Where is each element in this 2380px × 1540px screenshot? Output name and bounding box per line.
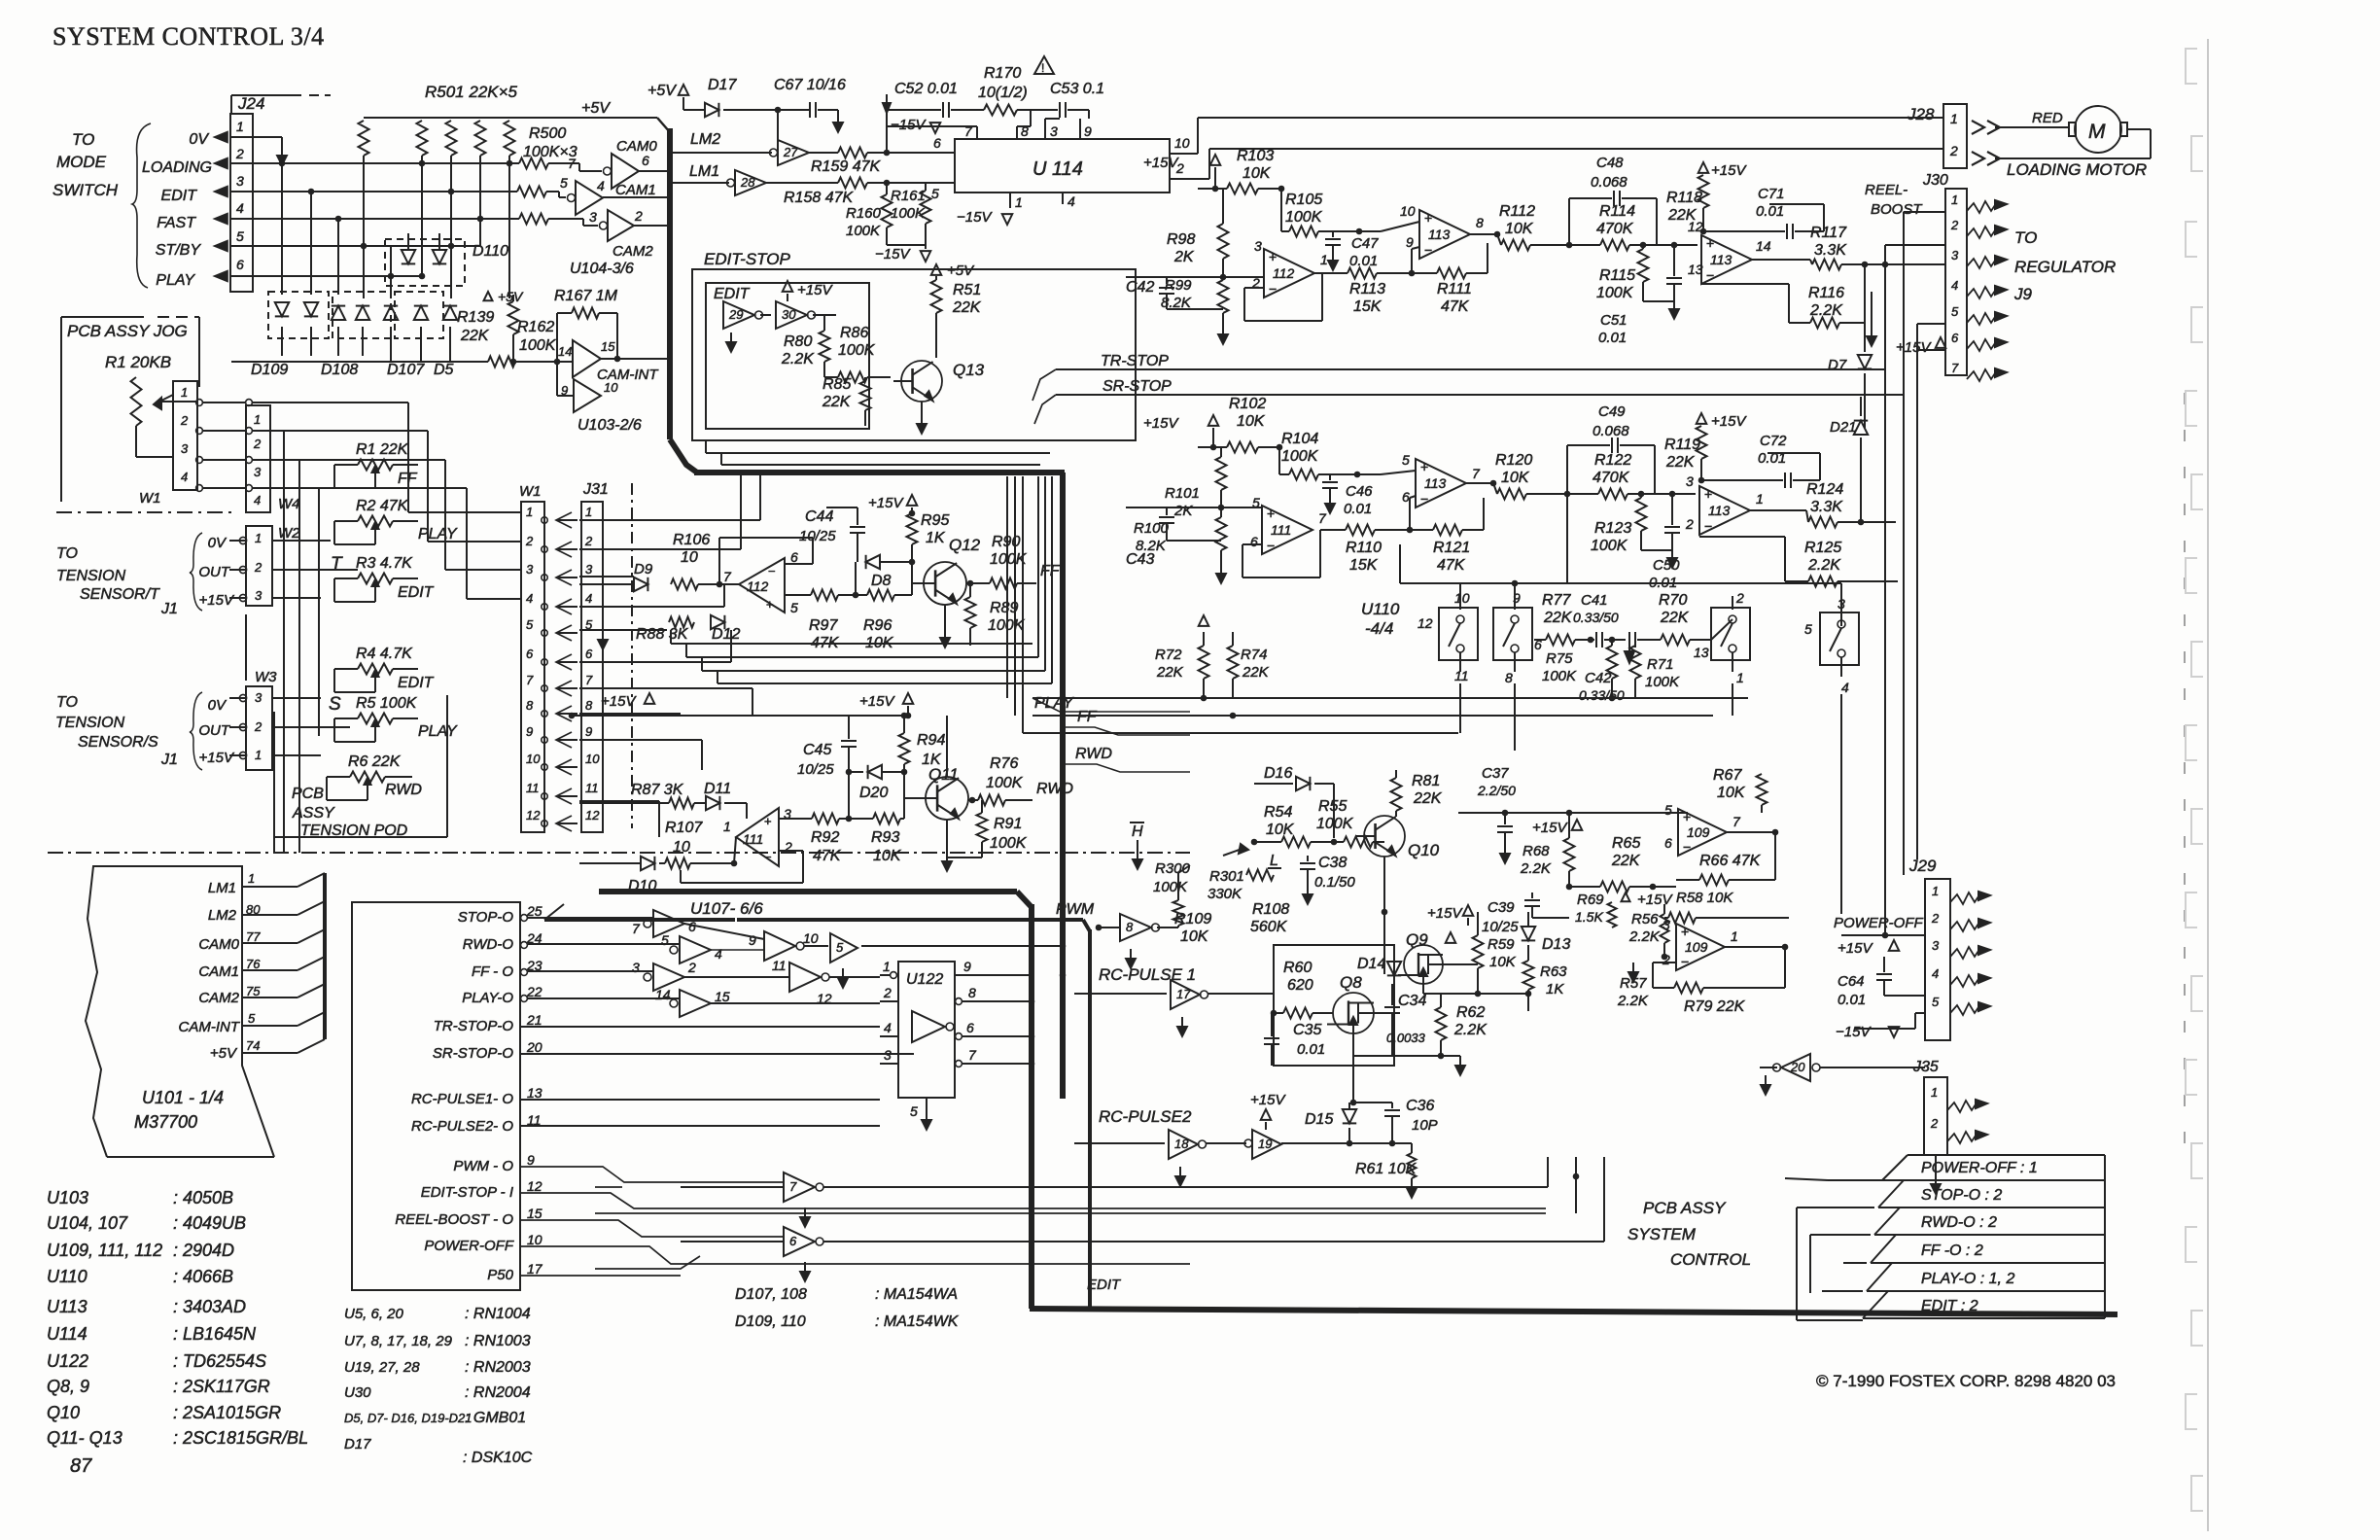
feedback R106 wire	[718, 538, 720, 584]
svg-text:D110: D110	[472, 243, 508, 260]
svg-text:1: 1	[1731, 928, 1738, 944]
resistor R103	[1215, 188, 1227, 190]
bus thick horizontal H3	[737, 918, 1083, 922]
op-amp U109 a	[1678, 809, 1727, 856]
svg-text:STOP-O : 2: STOP-O : 2	[1921, 1187, 2002, 1204]
svg-text:U110: U110	[1361, 600, 1400, 618]
svg-text:10/25: 10/25	[799, 528, 836, 544]
wire ST/BY row	[230, 245, 480, 247]
svg-text:FF - O: FF - O	[472, 963, 513, 980]
transistor Q8 fet	[1333, 993, 1374, 1033]
svg-text:10/25: 10/25	[1482, 919, 1519, 935]
svg-text:POWER-OFF: POWER-OFF	[424, 1238, 513, 1254]
svg-text:0.068: 0.068	[1592, 423, 1629, 439]
svg-text:10: 10	[673, 839, 690, 856]
resistor R167	[572, 308, 599, 319]
svg-text:P50: P50	[487, 1267, 513, 1283]
svg-text:OUT: OUT	[198, 722, 231, 739]
resistor R106	[671, 579, 698, 590]
inverter 19	[1206, 1142, 1246, 1144]
svg-text:112: 112	[747, 578, 769, 594]
diode D13	[1527, 912, 1529, 926]
resistor R80	[820, 331, 830, 362]
svg-text:+15V: +15V	[199, 750, 235, 766]
svg-text:3: 3	[1254, 238, 1262, 254]
svg-text:R121: R121	[1433, 540, 1470, 556]
svg-text:1: 1	[1931, 1085, 1938, 1100]
svg-text:R98: R98	[1167, 231, 1195, 248]
svg-text:U104-3/6: U104-3/6	[570, 261, 634, 277]
svg-text:75: 75	[246, 984, 261, 998]
svg-text:1: 1	[255, 531, 262, 545]
U114 pin 5	[926, 182, 955, 184]
J24 pin 2 arrow	[215, 158, 227, 168]
svg-text:M: M	[2088, 121, 2106, 143]
svg-text:12: 12	[527, 1178, 542, 1194]
svg-text:C53 0.1: C53 0.1	[1050, 81, 1104, 97]
svg-text:U107- 6/6: U107- 6/6	[690, 899, 763, 918]
svg-text:C48: C48	[1596, 155, 1624, 171]
svg-text:19: 19	[1258, 1137, 1272, 1151]
svg-text:77: 77	[246, 929, 261, 944]
svg-text:1K: 1K	[1546, 981, 1564, 997]
svg-text:LM2: LM2	[208, 907, 237, 924]
resistor R500c	[519, 214, 548, 225]
sensor T brace	[190, 533, 202, 611]
resistor R111	[1412, 272, 1437, 274]
box tension pod	[274, 836, 447, 838]
svg-text:2: 2	[883, 985, 892, 1000]
diode D107b	[414, 306, 428, 320]
wire +15 Q9	[1467, 918, 1469, 926]
pot R1 jog	[131, 377, 142, 426]
J24 pin 4 arrow	[215, 214, 227, 224]
svg-text:0.01: 0.01	[1756, 203, 1784, 220]
svg-text:C42: C42	[1126, 279, 1154, 296]
svg-text:100K: 100K	[1285, 209, 1323, 226]
svg-text:2: 2	[1949, 143, 1958, 158]
svg-text:74: 74	[246, 1038, 260, 1053]
box edit-stop inner	[706, 283, 869, 429]
svg-text:: 4049UB: : 4049UB	[173, 1213, 246, 1233]
svg-text:TR-STOP: TR-STOP	[1101, 353, 1169, 369]
wire 111b out	[734, 837, 736, 863]
svg-text:8: 8	[1505, 670, 1513, 685]
svg-text:2.2K: 2.2K	[1520, 860, 1552, 877]
resistor R112	[1497, 234, 1501, 245]
inverter bottom 7	[784, 1172, 815, 1202]
J30 pin 1 contact	[1967, 201, 1997, 213]
svg-text:: MA154WA: : MA154WA	[875, 1286, 958, 1303]
svg-text:R71: R71	[1647, 656, 1674, 673]
resistor R87	[579, 802, 669, 804]
svg-text:TENSION POD: TENSION POD	[300, 822, 408, 839]
wire nested a	[706, 452, 1050, 454]
svg-text:47K: 47K	[1437, 557, 1466, 574]
svg-text:22K: 22K	[822, 394, 852, 410]
svg-text:8: 8	[968, 985, 976, 1000]
svg-text:3: 3	[632, 960, 640, 975]
connector J31 column	[581, 502, 603, 832]
diode D8	[857, 552, 858, 562]
svg-text:+: +	[1706, 235, 1714, 251]
op-amp U112 a	[1264, 249, 1314, 297]
svg-text:J1: J1	[160, 601, 178, 617]
resistor R139	[508, 301, 519, 334]
svg-text:D13: D13	[1542, 936, 1570, 953]
svg-text:Q12: Q12	[949, 536, 981, 554]
wire vertical bundle d	[1006, 476, 1008, 698]
svg-text:R55: R55	[1318, 798, 1347, 815]
svg-text:C50: C50	[1653, 557, 1680, 574]
resistor R120	[1493, 483, 1497, 494]
ic U122 box	[898, 962, 955, 1098]
svg-text:U113: U113	[47, 1297, 87, 1316]
svg-text:3: 3	[1932, 938, 1940, 953]
svg-text:R94: R94	[917, 732, 945, 749]
svg-text:C41: C41	[1581, 592, 1608, 609]
svg-text:R106: R106	[673, 532, 710, 548]
resistor R102	[1213, 446, 1227, 448]
svg-text:: 2SK117GR: : 2SK117GR	[173, 1377, 270, 1396]
svg-text:: RN1004: : RN1004	[465, 1306, 531, 1322]
svg-text:17: 17	[527, 1261, 543, 1277]
svg-text:6: 6	[642, 153, 649, 168]
J31 pin 11 contact	[542, 793, 547, 799]
bus +5V top	[364, 117, 657, 119]
svg-text:R60: R60	[1283, 960, 1312, 976]
resistor R60	[1274, 1012, 1283, 1014]
svg-text:2.2/50: 2.2/50	[1477, 783, 1516, 798]
J29 pin 5 contact	[1950, 1003, 1980, 1015]
svg-text:−15V: −15V	[891, 117, 927, 133]
svg-text:EDIT-STOP: EDIT-STOP	[704, 250, 790, 268]
wire LOADING row	[230, 162, 519, 164]
page edge light line	[2207, 39, 2209, 1531]
diode D17	[705, 103, 718, 117]
J24 pin 5 arrow	[215, 241, 227, 251]
svg-text:RC-PULSE2: RC-PULSE2	[1099, 1107, 1192, 1126]
svg-text:+15V: +15V	[1143, 155, 1179, 171]
svg-text:R67: R67	[1713, 767, 1742, 784]
svg-text:4: 4	[585, 591, 592, 606]
svg-text:: LB1645N: : LB1645N	[173, 1324, 257, 1344]
svg-text:2: 2	[253, 437, 262, 451]
wire ff elbow	[1063, 727, 1190, 735]
svg-text:: 2904D: : 2904D	[173, 1241, 234, 1260]
svg-text:100K: 100K	[1596, 285, 1634, 301]
resistor R101	[1216, 457, 1227, 490]
svg-text:+15V: +15V	[601, 693, 637, 710]
resistor R98	[1218, 224, 1229, 259]
capacitor C72 back wire	[1819, 453, 1821, 480]
svg-text:0V: 0V	[208, 535, 227, 551]
svg-text:2: 2	[1931, 911, 1940, 926]
svg-text:3: 3	[1050, 123, 1058, 139]
svg-text:1: 1	[254, 412, 261, 427]
svg-text:R92: R92	[811, 829, 839, 846]
svg-text:U122: U122	[906, 971, 943, 988]
wire R116 back	[1788, 284, 1790, 323]
svg-text:W3: W3	[255, 669, 277, 685]
svg-text:0.1/50: 0.1/50	[1314, 874, 1355, 891]
wire J35 drop	[1935, 1155, 1937, 1178]
svg-text:R77: R77	[1542, 592, 1571, 609]
wire R124 net right	[1861, 521, 1896, 523]
wire FAST row	[230, 218, 519, 220]
svg-text:112: 112	[1273, 265, 1295, 281]
svg-text:R76: R76	[990, 755, 1018, 772]
svg-text:+15V: +15V	[1896, 339, 1932, 356]
svg-text:Q13: Q13	[953, 361, 985, 379]
resistor R116	[1789, 322, 1810, 324]
svg-text:10K: 10K	[1266, 822, 1295, 838]
svg-text:−: −	[1706, 267, 1714, 283]
svg-text:RC-PULSE 1: RC-PULSE 1	[1099, 965, 1196, 984]
svg-text:-4/4: -4/4	[1365, 619, 1393, 638]
svg-text:: 4050B: : 4050B	[173, 1188, 233, 1207]
J24 pin 3 arrow	[215, 187, 227, 196]
diode D15	[1348, 1102, 1350, 1108]
svg-text:U110: U110	[47, 1267, 87, 1286]
svg-text:5: 5	[1402, 452, 1410, 468]
wire R125 back	[1784, 537, 1786, 581]
svg-text:H: H	[1132, 823, 1143, 840]
svg-text:100K: 100K	[990, 835, 1028, 852]
svg-text:FF: FF	[398, 471, 418, 487]
svg-text:SENSOR/T: SENSOR/T	[80, 586, 160, 603]
wire nested b	[721, 464, 1040, 466]
svg-text:R69: R69	[1577, 892, 1604, 908]
wire 111a fb	[1242, 543, 1262, 545]
svg-text:J29: J29	[1908, 857, 1937, 875]
svg-text:4: 4	[1067, 193, 1075, 209]
J29 pin 1 contact	[1950, 892, 1980, 904]
ic U114 box	[955, 139, 1170, 192]
gnd Q12	[944, 605, 946, 632]
svg-text:8: 8	[1126, 920, 1134, 934]
svg-text:6: 6	[1951, 331, 1959, 345]
svg-text:−: −	[1683, 839, 1691, 855]
svg-text:ST/BY: ST/BY	[156, 242, 202, 259]
svg-text:100K: 100K	[1591, 538, 1628, 554]
resistor R75	[1607, 646, 1618, 679]
svg-text:R86: R86	[840, 325, 868, 341]
svg-text:: DSK10C: : DSK10C	[463, 1450, 533, 1466]
svg-text:+15V: +15V	[1637, 892, 1673, 908]
svg-text:Q11: Q11	[928, 765, 959, 784]
resistor R118	[1698, 175, 1709, 208]
bus thick elbow	[670, 439, 697, 472]
svg-text:R58 10K: R58 10K	[1676, 890, 1733, 906]
svg-text:7: 7	[632, 921, 641, 936]
dash-dot pod boundary	[48, 852, 1190, 854]
resistor R501 element x464	[446, 121, 457, 156]
resistor R65	[1569, 886, 1600, 888]
resistor R109	[1173, 900, 1184, 926]
junction dots bus	[1060, 943, 1067, 950]
gnd Q13	[921, 402, 923, 420]
resistor R69	[1608, 902, 1617, 927]
svg-text:TO: TO	[2014, 228, 2037, 247]
svg-text:C44: C44	[805, 508, 833, 525]
svg-text:C51: C51	[1600, 312, 1627, 329]
wire U114 to +5V rail	[886, 110, 888, 153]
svg-text:1: 1	[1932, 884, 1939, 898]
svg-text:PLAY: PLAY	[418, 526, 458, 542]
svg-text:15K: 15K	[1349, 557, 1379, 574]
svg-text:1: 1	[255, 748, 262, 762]
wire sw outputs	[1459, 683, 1461, 733]
op-amp U109 b	[1676, 924, 1725, 970]
bus thick horizontal H1	[694, 470, 1065, 475]
svg-text:2: 2	[525, 534, 534, 548]
resistor R158	[766, 182, 838, 184]
svg-text:1: 1	[585, 505, 592, 519]
svg-text:R125: R125	[1804, 540, 1841, 556]
svg-text:U5, 6, 20: U5, 6, 20	[344, 1306, 404, 1322]
svg-text:D8: D8	[871, 573, 892, 589]
wire vertical bundle b	[1044, 476, 1046, 671]
inverter U107 f	[789, 962, 821, 992]
svg-text:10: 10	[1400, 203, 1416, 219]
svg-text:C36: C36	[1406, 1098, 1434, 1114]
arrow C52 left	[886, 94, 888, 110]
svg-text:2: 2	[584, 534, 593, 548]
capacitor C50	[1671, 521, 1673, 525]
wire 0V drop arrow	[230, 136, 282, 138]
svg-text:SR-STOP-O: SR-STOP-O	[433, 1045, 513, 1062]
wire Q11 base	[904, 797, 926, 799]
svg-text:3: 3	[255, 690, 262, 705]
svg-text:10: 10	[803, 930, 819, 946]
wires U107 outputs	[684, 924, 764, 939]
inverter U107 d	[670, 999, 678, 1007]
inverter U104 CAM2	[548, 218, 583, 220]
inverter U104 CAM1	[546, 191, 559, 192]
svg-text:+5V: +5V	[581, 100, 611, 117]
J35 pin1 contact	[1947, 1101, 1977, 1112]
svg-text:U101 - 1/4: U101 - 1/4	[142, 1088, 224, 1107]
svg-text:+15V: +15V	[1837, 940, 1873, 957]
svg-text:PCB ASSY: PCB ASSY	[1643, 1199, 1727, 1217]
switch U110 d	[1820, 612, 1859, 665]
svg-text:+: +	[1267, 506, 1275, 521]
svg-text:1: 1	[1756, 491, 1764, 507]
svg-text:R80: R80	[784, 333, 812, 350]
inverter U107 a	[644, 920, 651, 927]
svg-text:10P: 10P	[1412, 1117, 1438, 1134]
svg-text:15: 15	[527, 1206, 542, 1221]
svg-text:U 114: U 114	[1032, 158, 1083, 180]
wire 109a out	[1727, 831, 1775, 833]
wire inv20	[1820, 1067, 1925, 1068]
svg-text:MODE: MODE	[56, 153, 107, 171]
wire parallel row3	[702, 670, 1045, 672]
wire power-off	[1841, 934, 1925, 936]
svg-text:7: 7	[968, 1047, 977, 1063]
ic U101 port box	[352, 902, 520, 1290]
diode D108b	[356, 306, 369, 320]
svg-text:D7: D7	[1828, 357, 1847, 373]
svg-text:R72: R72	[1155, 647, 1182, 663]
gnd Q11	[946, 820, 948, 857]
svg-text:14: 14	[558, 344, 572, 359]
op-amp U103 CAM-INT a	[515, 361, 573, 363]
svg-text:PCB: PCB	[292, 786, 324, 802]
svg-text:+: +	[1420, 459, 1428, 474]
svg-text:W1: W1	[519, 483, 542, 500]
resistor R105	[1280, 189, 1282, 231]
svg-text:2: 2	[634, 208, 643, 224]
svg-text:2.2K: 2.2K	[1628, 928, 1661, 945]
bus thick bottom H4	[1030, 1309, 2117, 1314]
svg-text:CAM1: CAM1	[615, 182, 656, 198]
svg-text:R170: R170	[984, 65, 1021, 82]
diode D20	[849, 771, 863, 773]
svg-text:T: T	[331, 554, 343, 575]
svg-text:D15: D15	[1305, 1111, 1333, 1128]
connector W2 body	[246, 526, 272, 606]
wire D17 junction down	[777, 110, 779, 146]
wire rwd elbow	[1063, 764, 1190, 772]
svg-text:RWD-O : 2: RWD-O : 2	[1921, 1214, 1997, 1231]
svg-text:ASSY: ASSY	[292, 805, 335, 822]
J30 pin 4 contact	[1967, 287, 1997, 298]
svg-text:FAST: FAST	[157, 215, 196, 231]
svg-text:100K: 100K	[846, 223, 881, 239]
svg-text:+5V: +5V	[947, 262, 975, 279]
svg-text:111: 111	[743, 831, 763, 847]
svg-text:D20: D20	[859, 785, 888, 801]
wire 113b out	[1752, 259, 1810, 261]
svg-text:C47: C47	[1351, 235, 1379, 252]
svg-text:0.01: 0.01	[1349, 253, 1378, 269]
svg-text:0.01: 0.01	[1297, 1041, 1325, 1058]
svg-text:C45: C45	[803, 742, 831, 758]
svg-text:7: 7	[1472, 466, 1481, 481]
resistor R501 element x524	[505, 121, 515, 156]
resistor R124	[1808, 517, 1837, 528]
svg-text:14: 14	[655, 987, 671, 1002]
J35 pin2 contact	[1947, 1132, 1977, 1143]
svg-text:Q8: Q8	[1340, 973, 1362, 992]
svg-text:6: 6	[1250, 534, 1258, 549]
table row PLAY-O	[1892, 1262, 2105, 1264]
wire vertical bundle f	[1022, 476, 1024, 733]
table row POWER-OFF	[1907, 1154, 2105, 1156]
J31 pin 12 contact	[542, 821, 547, 826]
wire J31 risers right	[759, 472, 761, 520]
wire vertical bundle e	[1014, 476, 1016, 716]
svg-text:4: 4	[715, 946, 722, 962]
bus thick vertical V2	[1060, 472, 1066, 1099]
wire jog drops	[283, 431, 285, 853]
capacitor C43	[1166, 507, 1168, 515]
svg-text:13: 13	[1688, 262, 1703, 277]
svg-text:RWD: RWD	[1075, 746, 1112, 762]
gnd C34 R62	[1353, 1055, 1441, 1057]
svg-text:R112: R112	[1499, 203, 1535, 220]
dash-dot W1 bottom	[56, 511, 233, 513]
svg-text:1: 1	[1950, 111, 1958, 126]
resistor R85	[860, 381, 871, 410]
svg-text:R1 22K: R1 22K	[356, 441, 409, 458]
resistor R99	[1218, 280, 1229, 313]
resistor R161	[921, 191, 931, 224]
svg-text:2K: 2K	[1173, 249, 1195, 265]
svg-text:470K: 470K	[1592, 470, 1630, 486]
